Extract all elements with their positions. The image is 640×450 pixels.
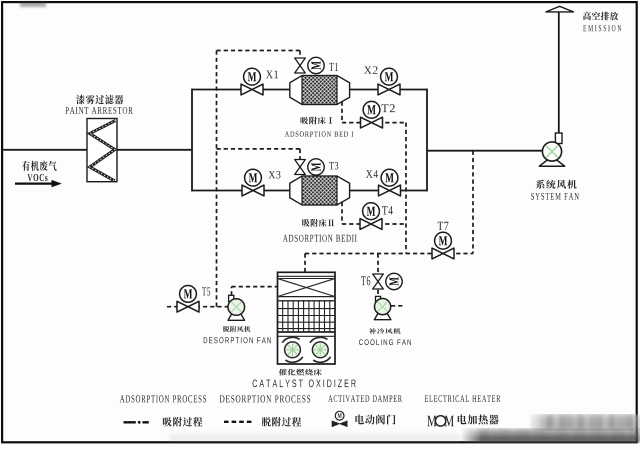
label PAINT ARRESTOR [65, 107, 132, 114]
label ADSORPTION BED I [285, 131, 354, 136]
desorption fan [228, 295, 245, 320]
wire: desorption fan outlet to oxidizer [231, 287, 233, 296]
label 电加热器 [458, 415, 499, 425]
label 吸附床 II [302, 219, 334, 227]
label X4 [366, 170, 378, 178]
wire: main pipe to system fan [427, 150, 544, 152]
wire: bed I inlet branch [192, 89, 292, 91]
label CATALYST OXIDIZER [253, 380, 356, 388]
label DESORPTION FAN [204, 337, 271, 343]
valve X2 (motorized damper) [378, 68, 400, 95]
valve T4 (motorized damper) [360, 203, 382, 230]
legend: activated damper symbol [332, 411, 347, 426]
legend: desorption process line sample [224, 421, 252, 423]
label EMISSION [583, 25, 621, 31]
label ADSORPTION PROCESS [120, 395, 206, 402]
label X2 [364, 66, 378, 73]
label 脱附过程 [262, 417, 302, 427]
wire: bed I outlet branch [348, 89, 427, 91]
valve T3 (motorized damper, vertical) [295, 159, 324, 175]
valve X1 (motorized damper) [241, 68, 263, 95]
valve X4 (motorized damper) [379, 169, 401, 196]
valve T2 (motorized damper) [361, 101, 383, 128]
wire: exhaust stack [558, 12, 560, 135]
legend: adsorption process line sample [124, 421, 149, 424]
wire: VOC inlet main pipe [3, 149, 192, 151]
legend: electrical heater symbol M-O-M [427, 416, 454, 427]
label ELECTRICAL HEATER [425, 395, 501, 402]
label 催化燃烧床 [279, 369, 322, 376]
wire: desorption dashed, bottom header [305, 253, 473, 255]
label ACTIVATED DAMPER [328, 395, 402, 402]
label ADSORPTION BEDII [283, 235, 357, 242]
label 电动阀门 [355, 415, 395, 425]
paint arrestor (filter) [87, 119, 117, 182]
wire: desorption dashed, drop to valve T6 / cooling fan [377, 254, 379, 274]
label T7 [438, 222, 449, 230]
wire: outlet junction vertical [426, 89, 428, 192]
valve T5 (motorized damper) [177, 286, 199, 313]
label DESORPTION PROCESS [220, 395, 311, 402]
wire: desorption dashed, fresh-air drop from main pipe [472, 151, 474, 254]
wire: bed II outlet branch [348, 190, 427, 192]
label 系统风机 [536, 180, 577, 189]
wire: desorption dashed, drop into oxidizer [304, 254, 306, 273]
system fan [539, 133, 564, 166]
wire: desorption dashed, bed II top feed [217, 148, 301, 150]
adsorption bed II (hatched vessel) [290, 176, 350, 205]
label T1 [329, 63, 337, 71]
label T4 [382, 206, 393, 214]
valve T7 (motorized damper) [432, 232, 454, 259]
wire: desorption dashed, bed I top feed [217, 50, 301, 52]
label SYSTEM FAN [531, 193, 579, 200]
wire: desorption dashed, valve T5 line to desorption fan [167, 306, 228, 308]
wire: desorption dashed, bed I out to valve T2 [341, 102, 343, 123]
valve X3 (motorized damper) [242, 169, 264, 196]
label 脱附风机 [223, 326, 250, 332]
label 补冷风机 [369, 328, 401, 334]
label X1 [266, 71, 278, 79]
wire: cooling fan air stub [391, 305, 404, 307]
label T2 [382, 104, 395, 112]
VOC inlet arrow [15, 180, 62, 187]
wire: desorption dashed, bed II out to valve T4 [341, 202, 343, 224]
wire: bed II inlet branch [192, 190, 292, 192]
label COOLING FAN [359, 339, 411, 345]
label 漆雾过滤器 [76, 95, 123, 105]
label T6 [361, 276, 370, 285]
label 高空排放 [583, 12, 618, 21]
label X3 [269, 171, 281, 178]
label VOCs [28, 174, 48, 181]
valve T1 (motorized damper, vertical) [295, 57, 324, 73]
cooling fan [374, 296, 391, 319]
wire: inlet junction vertical [191, 89, 193, 192]
label T3 [329, 162, 338, 170]
label T5 [202, 287, 210, 295]
label 有机废气 [22, 161, 57, 171]
adsorption bed I (hatched vessel) [290, 76, 350, 105]
label 吸附床 I [301, 117, 333, 125]
wire: desorption dashed, right riser T2/T4 [405, 123, 407, 254]
catalyst oxidizer [278, 272, 336, 364]
emission stack arrow [546, 6, 574, 12]
wire: desorption dashed, left riser [216, 51, 218, 307]
valve T6 (motorized damper, vertical) [373, 273, 402, 289]
label 吸附过程 [163, 417, 203, 427]
